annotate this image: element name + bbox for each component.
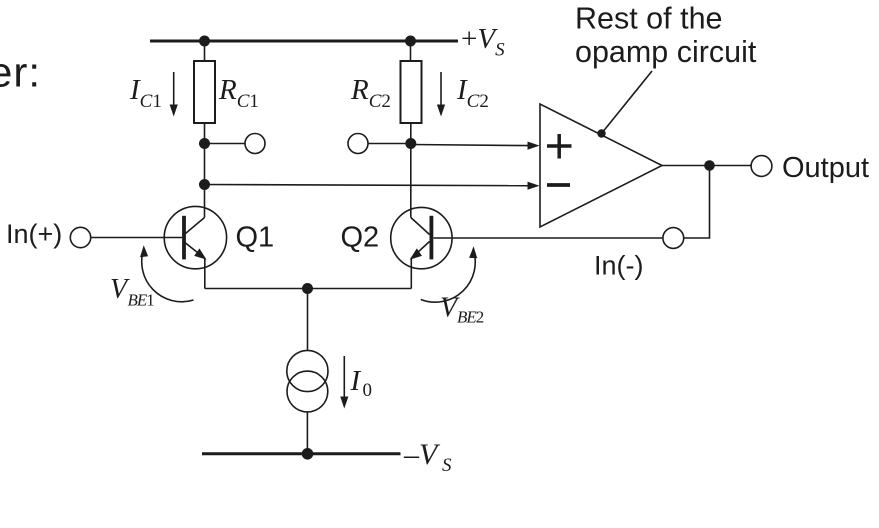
- I0 arrow: [343, 356, 345, 397]
- op-amp U1: [540, 104, 662, 227]
- In(+) terminal circle: [70, 227, 90, 247]
- svg-text:VBE2: VBE2: [440, 293, 484, 327]
- VBE2 arc arrow: [421, 249, 475, 302]
- wire rail to RC1: [204, 41, 206, 61]
- In(-) terminal circle: [663, 228, 684, 249]
- svg-text:IC2: IC2: [456, 74, 489, 112]
- wire rail to RC2: [410, 41, 412, 61]
- +V supply rail: [150, 40, 458, 43]
- wire RC1 to Q1 collector: [204, 123, 206, 218]
- tap node on op-amp edge: [597, 129, 605, 137]
- open terminal circle: [348, 134, 368, 154]
- wire node to plus input: [411, 145, 529, 146]
- svg-text:+VS: +VS: [461, 23, 505, 61]
- node to minus-input wire: [199, 179, 210, 190]
- svg-text:I0: I0: [350, 365, 373, 401]
- minus input mark: [547, 183, 570, 187]
- leader line to annotation: [602, 71, 653, 134]
- current arrow IC2: [440, 72, 442, 105]
- svg-text:opamp circuit: opamp circuit: [575, 35, 757, 69]
- svg-text:RC2: RC2: [350, 74, 391, 112]
- stub wire to terminal: [205, 143, 246, 145]
- wire node to minus input: [205, 185, 529, 186]
- feedback wire down and left: [684, 166, 710, 239]
- wire In(+) to Q1 base: [91, 237, 182, 239]
- output node: [704, 160, 715, 171]
- svg-text:VBE1: VBE1: [110, 274, 155, 310]
- node on rail (right): [405, 36, 416, 47]
- wire source to -V rail: [306, 412, 308, 454]
- svg-text:Q2: Q2: [341, 222, 380, 254]
- plus input mark: [547, 144, 572, 148]
- open terminal circle: [245, 134, 265, 154]
- svg-text:In(-): In(-): [594, 251, 644, 281]
- current source I0: [287, 350, 328, 391]
- node below RC1: [199, 138, 210, 149]
- svg-text:–VS: –VS: [403, 438, 452, 476]
- stub wire terminal to node: [368, 143, 411, 145]
- svg-text:Q1: Q1: [236, 222, 275, 254]
- wire terminal to Q2 base: [434, 237, 663, 239]
- svg-text:Rest of the: Rest of the: [575, 1, 723, 35]
- node on -V rail: [302, 448, 314, 460]
- tail wire to current source: [307, 289, 309, 351]
- svg-text:RC1: RC1: [218, 74, 259, 112]
- transistor Q1: [164, 206, 226, 268]
- svg-text:Output: Output: [782, 152, 869, 184]
- output terminal: [751, 156, 772, 177]
- emitter rail wire: [205, 288, 411, 290]
- resistor RC2: [401, 61, 422, 123]
- wire RC2 to Q2 collector: [410, 123, 412, 218]
- -V supply rail: [202, 452, 401, 455]
- emitter junction node: [302, 283, 313, 294]
- node on rail (left): [199, 36, 210, 47]
- VBE1 arc arrow: [142, 249, 194, 302]
- current arrow IC1: [173, 72, 175, 105]
- resistor RC1: [194, 61, 215, 123]
- svg-text:IC1: IC1: [129, 74, 162, 112]
- svg-text:er:: er:: [0, 49, 41, 96]
- transistor Q2: [391, 207, 452, 268]
- svg-text:In(+): In(+): [6, 219, 62, 249]
- output wire: [662, 165, 751, 167]
- node below RC2: [405, 138, 416, 149]
